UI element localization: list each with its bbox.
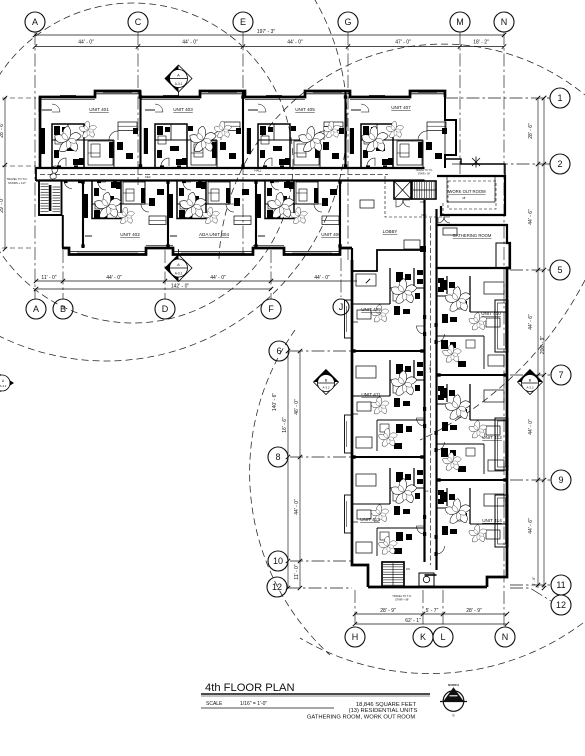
svg-text:44' - 6": 44' - 6" bbox=[528, 518, 534, 534]
svg-text:UNIT 413: UNIT 413 bbox=[360, 517, 380, 522]
svg-text:A: A bbox=[32, 17, 38, 27]
svg-text:46' - 0": 46' - 0" bbox=[294, 399, 300, 415]
svg-text:1/16" = 1'-0": 1/16" = 1'-0" bbox=[240, 701, 267, 707]
svg-text:11: 11 bbox=[556, 580, 565, 590]
svg-text:6: 6 bbox=[276, 346, 281, 356]
svg-text:UNIT 410: UNIT 410 bbox=[481, 311, 501, 316]
svg-text:1: 1 bbox=[557, 93, 562, 103]
svg-text:UNIT 403: UNIT 403 bbox=[173, 107, 193, 112]
svg-text:5' - 7": 5' - 7" bbox=[426, 608, 439, 614]
svg-text:NORTH: NORTH bbox=[448, 683, 459, 687]
svg-text:TRAVEL TO T.O.: TRAVEL TO T.O. bbox=[415, 169, 433, 172]
svg-text:5: 5 bbox=[557, 265, 562, 275]
svg-text:FEC: FEC bbox=[423, 489, 428, 493]
svg-text:LOBBY: LOBBY bbox=[383, 229, 398, 234]
svg-text:11' - 0": 11' - 0" bbox=[294, 564, 300, 579]
svg-text:62' - 1": 62' - 1" bbox=[405, 618, 421, 624]
svg-text:D: D bbox=[162, 304, 169, 314]
svg-text:44' - 0": 44' - 0" bbox=[182, 40, 198, 46]
svg-text:UNIT 412: UNIT 412 bbox=[482, 435, 502, 440]
svg-text:142' - 0": 142' - 0" bbox=[171, 284, 190, 290]
svg-text:47' - 0": 47' - 0" bbox=[395, 40, 411, 46]
svg-text:A-3.1: A-3.1 bbox=[175, 272, 183, 276]
svg-text:FEC: FEC bbox=[145, 175, 151, 179]
svg-text:STAIRS + 117': STAIRS + 117' bbox=[8, 181, 27, 185]
svg-text:A-3.1: A-3.1 bbox=[175, 82, 183, 86]
svg-text:STAIR + 98': STAIR + 98' bbox=[395, 598, 409, 602]
svg-text:12: 12 bbox=[272, 582, 282, 592]
svg-text:(13) RESIDENTIAL UNITS: (13) RESIDENTIAL UNITS bbox=[349, 708, 418, 714]
svg-text:UNIT 401: UNIT 401 bbox=[89, 107, 109, 112]
svg-text:44' - 0": 44' - 0" bbox=[528, 419, 534, 435]
svg-text:11' - 0": 11' - 0" bbox=[41, 275, 56, 281]
svg-text:206' - 9": 206' - 9" bbox=[540, 336, 546, 355]
svg-text:29' - 0": 29' - 0" bbox=[0, 197, 5, 213]
svg-text:18' - 2": 18' - 2" bbox=[473, 40, 489, 46]
svg-text:S: S bbox=[452, 714, 454, 718]
svg-text:44' - 6": 44' - 6" bbox=[528, 314, 534, 330]
svg-text:UNIT 407: UNIT 407 bbox=[391, 105, 411, 110]
svg-text:140' - 6": 140' - 6" bbox=[272, 393, 278, 412]
svg-text:28' - 6": 28' - 6" bbox=[528, 123, 534, 139]
svg-text:UNIT 411: UNIT 411 bbox=[361, 392, 381, 397]
svg-text:HALL: HALL bbox=[254, 169, 262, 173]
svg-text:UNIT 414: UNIT 414 bbox=[482, 518, 502, 523]
svg-text:44' - 0": 44' - 0" bbox=[210, 275, 226, 281]
svg-text:28' - 6": 28' - 6" bbox=[0, 122, 5, 138]
svg-text:7: 7 bbox=[558, 370, 563, 380]
svg-text:C: C bbox=[135, 17, 142, 27]
svg-text:44' - 0": 44' - 0" bbox=[294, 499, 300, 515]
svg-text:197' - 3": 197' - 3" bbox=[257, 29, 276, 35]
svg-text:L: L bbox=[440, 632, 445, 642]
svg-text:1' - 6": 1' - 6" bbox=[532, 576, 536, 585]
svg-text:TRAVEL TO T.O.: TRAVEL TO T.O. bbox=[392, 594, 412, 598]
svg-text:A: A bbox=[33, 304, 39, 314]
svg-text:44' - 6": 44' - 6" bbox=[528, 209, 534, 225]
svg-text:UNIT 405: UNIT 405 bbox=[295, 107, 315, 112]
svg-text:44' - 0": 44' - 0" bbox=[287, 40, 303, 46]
svg-text:E: E bbox=[240, 17, 246, 27]
svg-text:H: H bbox=[352, 632, 359, 642]
svg-text:28' - 9": 28' - 9" bbox=[466, 608, 482, 614]
svg-text:28': 28' bbox=[462, 196, 466, 200]
svg-text:UNIT 409: UNIT 409 bbox=[361, 307, 381, 312]
svg-text:A: A bbox=[177, 262, 180, 267]
svg-text:A-3.2: A-3.2 bbox=[526, 386, 534, 390]
svg-text:44' - 0": 44' - 0" bbox=[78, 40, 94, 46]
svg-text:G: G bbox=[344, 17, 351, 27]
svg-text:N: N bbox=[501, 17, 508, 27]
svg-text:10: 10 bbox=[273, 556, 283, 566]
svg-text:2: 2 bbox=[557, 159, 562, 169]
svg-text:B: B bbox=[529, 379, 532, 383]
svg-text:M: M bbox=[456, 17, 464, 27]
svg-text:44' - 0": 44' - 0" bbox=[106, 275, 122, 281]
svg-text:WORK OUT ROOM: WORK OUT ROOM bbox=[448, 189, 486, 194]
svg-text:12: 12 bbox=[556, 600, 566, 610]
svg-text:STAIR + 50': STAIR + 50' bbox=[418, 172, 431, 175]
svg-text:8: 8 bbox=[275, 452, 280, 462]
svg-text:UNIT 406: UNIT 406 bbox=[321, 232, 341, 237]
svg-text:SCALE: SCALE bbox=[206, 701, 223, 707]
svg-text:B: B bbox=[325, 379, 328, 383]
svg-text:K: K bbox=[420, 632, 426, 642]
svg-text:HALL: HALL bbox=[428, 364, 432, 372]
svg-text:4th FLOOR PLAN: 4th FLOOR PLAN bbox=[205, 682, 295, 694]
svg-text:ADA UNIT 404: ADA UNIT 404 bbox=[199, 232, 229, 237]
svg-text:44' - 0": 44' - 0" bbox=[314, 275, 330, 281]
svg-text:A-3.2: A-3.2 bbox=[0, 384, 7, 388]
svg-text:GATHERING ROOM, WORK OUT ROOM: GATHERING ROOM, WORK OUT ROOM bbox=[307, 715, 415, 721]
svg-text:F: F bbox=[268, 304, 274, 314]
svg-text:A: A bbox=[177, 73, 180, 78]
svg-text:DN: DN bbox=[406, 567, 410, 571]
svg-text:GATHERING ROOM: GATHERING ROOM bbox=[453, 233, 492, 238]
svg-text:UNIT 402: UNIT 402 bbox=[120, 232, 140, 237]
svg-text:A-3.2: A-3.2 bbox=[322, 386, 330, 390]
svg-text:28' - 9": 28' - 9" bbox=[380, 608, 396, 614]
svg-text:J: J bbox=[339, 302, 344, 312]
svg-text:N: N bbox=[502, 632, 509, 642]
svg-text:B: B bbox=[60, 304, 66, 314]
svg-text:16' - 6": 16' - 6" bbox=[282, 417, 288, 433]
svg-text:9: 9 bbox=[558, 475, 563, 485]
